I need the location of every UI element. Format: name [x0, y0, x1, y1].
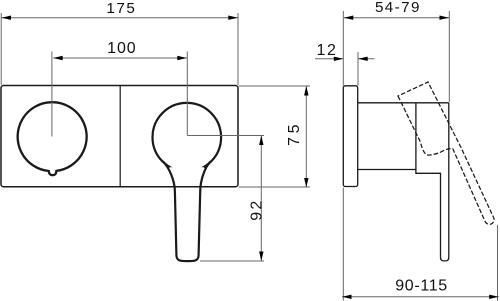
dim 90-115 arrowhead left: [342, 295, 352, 299]
dim 75 extension line top: [239, 85, 310, 87]
svg-text:175: 175: [106, 0, 135, 17]
dim 12 extension line right (plate front face): [357, 52, 359, 86]
centreline from right circle centre: [187, 135, 264, 137]
dim 75 arrowhead top: [304, 86, 308, 96]
dim 54-79 arrowhead right: [440, 16, 450, 20]
dim 90-115 arrowhead right: [489, 295, 499, 299]
dim 90-115 dimension line: [342, 296, 499, 298]
dim 54-79 extension line right (handle base): [448, 11, 450, 102]
dim 100 extension line left (to left circle centre): [51, 52, 53, 137]
dim 92 extension line bottom (from lever tip): [200, 260, 264, 262]
left escutcheon circle with bottom notch: [18, 102, 87, 175]
dim 175 extension line right: [237, 13, 239, 85]
dim 12 dimension line right tail: [358, 58, 374, 60]
dim 75 arrowhead bottom: [304, 178, 308, 188]
svg-text:12: 12: [316, 42, 336, 59]
dim 100 arrowhead right: [177, 56, 187, 60]
dim 90-115 extension line left (wall face): [342, 188, 344, 301]
dim 12 dimension line left tail: [315, 58, 343, 60]
dim 54-79 extension line left (wall face): [342, 11, 344, 86]
dim 100 extension line right (to right circle centre): [186, 52, 188, 136]
right escutcheon circle: [153, 103, 222, 172]
valve body, handle base and lever rod outline: [358, 103, 449, 261]
dim 175 arrowhead right: [228, 16, 238, 20]
dim 54-79 dimension line: [344, 17, 449, 19]
side wall plate outline: [343, 86, 357, 187]
plate divider joint line: [119, 86, 121, 187]
dim 175 dimension line: [2, 17, 238, 19]
dim 75 dimension line: [305, 86, 307, 188]
dim 100 arrowhead left: [53, 56, 63, 60]
dim 175 arrowhead left: [2, 16, 12, 20]
dim 92 dimension line: [260, 136, 262, 262]
dim 75 extension line bottom: [239, 186, 310, 188]
dim 90-115 extension line right (lever tip): [497, 225, 499, 301]
dashed lever in raised position: [398, 82, 494, 224]
lever handle stem (front): [163, 162, 211, 262]
dim 12 arrowhead left (pointing right): [334, 57, 344, 61]
svg-text:100: 100: [107, 40, 136, 57]
svg-text:90-115: 90-115: [395, 277, 447, 294]
dim 12 arrowhead right (pointing left): [358, 57, 368, 61]
dim 100 dimension line: [53, 57, 187, 59]
dim 175 extension line left: [0, 13, 2, 85]
front wall plate outline: [1, 86, 238, 187]
dim 54-79 arrowhead left: [344, 16, 354, 20]
svg-text:54-79: 54-79: [375, 0, 420, 16]
dim 92 arrowhead bottom: [259, 252, 263, 262]
dim 92 arrowhead top: [259, 136, 263, 146]
